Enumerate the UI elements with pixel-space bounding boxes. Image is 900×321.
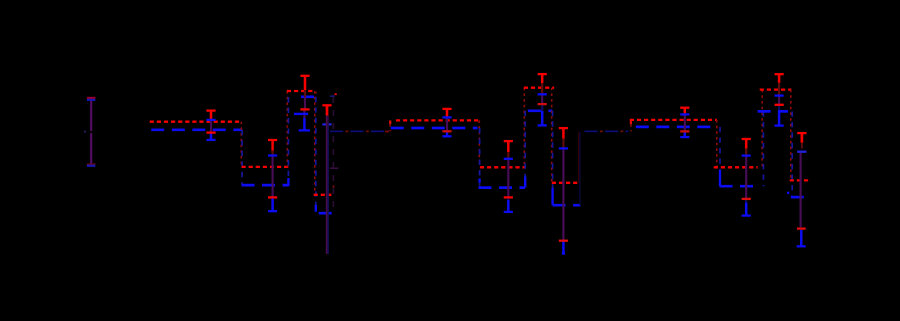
- bin B error bar red upper shaft: [271, 140, 274, 151]
- bin E2 error bar red bottom cap: [504, 196, 513, 198]
- bin A error bar red bottom cap: [206, 131, 215, 133]
- bin J error bar purple overlap shaft: [778, 96, 780, 105]
- bin C red rate line: [287, 90, 315, 92]
- bin J blue rate line: [758, 110, 789, 113]
- bin C error bar upper dim red shaft: [304, 90, 306, 97]
- bin K error bar red top cap: [797, 132, 806, 134]
- bin F error bar red bottom cap: [538, 103, 547, 105]
- bin F error bar dim blue lower shaft: [541, 104, 543, 111]
- gap segment 1 end red dash: [385, 131, 389, 133]
- bin C2 error bar dim core shaft: [326, 116, 329, 255]
- bin J red rate line: [760, 88, 792, 90]
- bin E2 error bar blue lower shaft: [507, 200, 510, 212]
- bin F red rate line: [524, 87, 554, 89]
- bin C error bar blue lower shaft: [303, 118, 306, 130]
- bin E2 error bar blue top cap: [504, 158, 513, 160]
- bin A error bar red upper shaft: [210, 111, 213, 120]
- bin B error bar red top cap: [268, 139, 277, 141]
- bin K error bar purple overlap shaft: [799, 152, 801, 228]
- bin G error bar dim red upper shaft: [562, 139, 564, 149]
- transition T11 red dotted connector: [790, 90, 792, 181]
- transition T6 blue bright stub: [524, 177, 526, 188]
- transition T10 red dotted connector: [761, 90, 763, 168]
- transition T1 red dotted connector: [240, 122, 242, 167]
- bin J error bar dim blue lower shaft: [778, 105, 780, 110]
- gap segment 1 dim red dotted segment: [330, 130, 389, 132]
- lone point purple error shaft: [90, 99, 92, 165]
- bin C2 stray dim blue dash: [330, 95, 335, 97]
- bin D blue rate line: [391, 127, 478, 130]
- bin E2 error bar blue bottom cap: [504, 211, 513, 213]
- bin K error bar red bottom cap: [797, 227, 806, 229]
- bin F error bar red top cap: [538, 73, 547, 75]
- bin I error bar blue lower shaft: [745, 203, 748, 216]
- bin D error bar red bottom cap: [442, 130, 451, 132]
- transition T2 red dotted connector: [286, 91, 288, 167]
- transition T2 blue bright stub: [287, 178, 289, 186]
- bin A error bar blue lower shaft: [210, 133, 213, 140]
- bin E2 red rate line: [480, 166, 525, 168]
- bin E2 error bar dim red upper shaft: [507, 152, 509, 159]
- bin C error bar red bottom cap: [300, 108, 309, 110]
- transition T7 blue bright stub: [551, 188, 553, 205]
- gap segment 2 dim red dotted segment: [585, 130, 629, 132]
- bin H error bar blue lower shaft: [684, 131, 687, 137]
- bin H error bar red top cap: [680, 107, 689, 109]
- bin D error bar red top cap: [442, 108, 451, 110]
- transition T4 red node dot: [333, 186, 335, 188]
- bin C error bar red upper shaft: [304, 76, 307, 90]
- bin G error bar red top cap: [559, 127, 568, 129]
- bin B error bar purple overlap shaft: [272, 156, 274, 198]
- bin J error bar blue lower shaft: [778, 110, 781, 126]
- bin H red rate line: [630, 119, 717, 121]
- bin C2 stray red dash: [335, 93, 337, 95]
- bin C error bar blue bottom cap: [299, 129, 310, 131]
- bin A blue rate line: [151, 128, 241, 131]
- bin H error bar blue top cap: [680, 113, 689, 115]
- bin H error bar blue bottom cap: [680, 136, 689, 138]
- bin I error bar blue bottom cap: [742, 214, 751, 216]
- bin A error bar red top cap: [206, 109, 215, 111]
- bin C error bar purple overlap shaft: [304, 97, 306, 110]
- bin C2 error bar dim red shaft: [326, 116, 328, 255]
- transition T8b bright red stub: [630, 120, 632, 124]
- bin I red rate line: [714, 166, 758, 168]
- bin B error bar blue top cap: [268, 154, 277, 156]
- bin D error bar blue lower shaft: [446, 131, 449, 136]
- bin B error bar dim red upper shaft: [272, 151, 274, 156]
- transition T7 red dotted connector: [551, 88, 553, 183]
- bin A red rate line: [150, 121, 242, 123]
- bin G error bar red upper shaft: [562, 128, 565, 138]
- bin H blue rate line: [636, 126, 714, 129]
- bin K error bar blue top cap: [797, 151, 806, 153]
- transition T5 red dotted connector: [478, 120, 480, 166]
- bin K error bar bright red shaft: [801, 133, 804, 143]
- transition T4 dim purple connector: [332, 97, 334, 213]
- bin K error bar dim red shaft: [801, 143, 803, 149]
- transition T4b dim red connector: [389, 124, 391, 131]
- bin G error bar blue lower shaft: [562, 241, 565, 254]
- bin B error bar blue bottom cap: [268, 210, 277, 212]
- bin C error bar red top cap: [300, 75, 309, 77]
- transition T9 red dotted connector: [716, 120, 718, 167]
- bin G red rate line: [552, 182, 579, 184]
- bin C2 red rate line: [314, 194, 332, 196]
- transition T11 blue dashed connector: [791, 111, 793, 197]
- bin F error bar dim red upper shaft: [541, 83, 543, 94]
- bin D error bar purple overlap shaft: [446, 117, 448, 131]
- transition T1 blue dashed connector: [241, 130, 243, 185]
- bin F error bar blue lower shaft: [541, 111, 544, 126]
- transition T2 blue dashed connector: [287, 97, 289, 178]
- bin C short blue bar: [294, 113, 308, 115]
- transition T8 dim blue connector: [579, 132, 581, 206]
- bin J error bar red upper shaft: [778, 74, 781, 83]
- bin C2 blue rate line: [319, 212, 335, 215]
- lone point blue top cap: [87, 99, 96, 101]
- bin I blue rate line: [720, 185, 758, 188]
- bin E2 error bar purple overlap shaft: [507, 159, 509, 198]
- transition T11 blue blob: [787, 192, 789, 195]
- bin G error bar purple overlap shaft: [562, 148, 564, 240]
- bin K red rate line: [790, 179, 811, 181]
- bin G error bar blue top cap: [559, 147, 568, 149]
- bin I error bar red bottom cap: [742, 198, 751, 200]
- transition T5 blue bright stub: [478, 179, 480, 183]
- transition T7 blue dashed connector: [552, 111, 554, 188]
- lone point blue bottom cap: [87, 165, 96, 167]
- transition T8b dim red connector: [630, 124, 632, 131]
- bin D red rate line: [396, 119, 480, 121]
- bin I error bar blue top cap: [742, 154, 751, 156]
- lone point faint blue marker: [84, 131, 86, 133]
- lone point shaft gap: [90, 131, 93, 133]
- bin A error bar blue bottom cap: [206, 139, 215, 141]
- gap segment 2 dim blue dashed segment: [585, 130, 629, 132]
- bin D error bar red upper shaft: [446, 109, 449, 118]
- bin D error bar blue top cap: [442, 116, 451, 118]
- bin F error bar purple overlap shaft: [541, 94, 543, 104]
- gap segment 1 dim blue dashed segment: [330, 130, 389, 132]
- bin K error bar blue bottom cap: [797, 245, 806, 247]
- bin I error bar dim blue lower shaft: [745, 199, 747, 203]
- bin J error bar red top cap: [775, 73, 784, 75]
- transition T3 blue bright stub: [315, 205, 317, 212]
- bin G error bar red bottom cap: [559, 240, 568, 242]
- transition T6 blue dashed connector: [524, 111, 526, 177]
- transition T9 blue bright stub: [719, 170, 721, 186]
- transition T4b bright red stub: [389, 120, 391, 124]
- bin J error bar dim red upper shaft: [778, 83, 780, 96]
- bin D error bar blue bottom cap: [442, 135, 451, 137]
- bin H error bar red upper shaft: [684, 108, 687, 115]
- bin I error bar red upper shaft: [745, 139, 748, 149]
- bin E2 blue rate line: [479, 186, 526, 189]
- bin F error bar red upper shaft: [541, 74, 544, 83]
- bin H error bar purple overlap shaft: [684, 114, 686, 131]
- bin E2 error bar red top cap: [504, 140, 513, 142]
- transition T3 red dotted connector: [314, 91, 316, 195]
- bin E2 error bar dim blue lower shaft: [507, 197, 509, 200]
- bin G error bar blue bottom blob: [562, 252, 565, 255]
- transition T5 blue dim tail: [479, 183, 481, 188]
- bin C error bar dim lower shaft: [303, 109, 305, 118]
- bin J error bar blue bottom cap: [775, 124, 784, 126]
- bin G blue rate line: [553, 204, 581, 207]
- transition T5 blue dashed connector: [479, 128, 481, 179]
- transition T6 red dotted connector: [523, 88, 525, 168]
- bin C2 small dark red mark: [315, 92, 317, 94]
- bin C2 faint purple dash: [330, 167, 338, 169]
- bin E2 error bar red upper shaft: [507, 141, 510, 152]
- bin J error bar red bottom cap: [775, 104, 784, 106]
- lone point red top cap: [87, 97, 96, 99]
- bin I error bar red top cap: [742, 138, 751, 140]
- bin K blue rate line: [791, 196, 805, 199]
- bin A error bar blue top cap: [206, 119, 215, 121]
- bin I error bar dim red upper shaft: [745, 149, 747, 156]
- bin J error bar blue top cap: [775, 94, 784, 96]
- bin F error bar blue top cap: [538, 93, 547, 95]
- bin B red rate line: [242, 166, 289, 168]
- bin B error bar blue lower shaft: [271, 197, 274, 211]
- transition T9 blue dashed connector: [719, 127, 721, 170]
- bin C2 error bar bright red shaft: [326, 105, 329, 115]
- bin B blue rate line: [242, 184, 289, 187]
- bin C blue rate line: [294, 95, 315, 98]
- lone point red bottom cap: [87, 163, 96, 165]
- transition T3 blue dashed connector: [315, 97, 317, 205]
- bin K error bar blue lower shaft: [800, 230, 803, 246]
- bin C2 error bar dim blue shaft: [327, 126, 329, 255]
- bin F blue rate line: [528, 109, 552, 112]
- bin H error bar red bottom cap: [680, 130, 689, 132]
- transition T8 dim red connector: [578, 132, 580, 183]
- bin C2 error bar bright red cap: [322, 104, 331, 106]
- bin C2 error bar blue cap: [322, 123, 331, 125]
- transition T10 blue dashed connector: [762, 111, 764, 186]
- bin I error bar purple overlap shaft: [745, 156, 747, 199]
- bin B error bar red bottom cap: [268, 196, 277, 198]
- bin F error bar blue bottom cap: [538, 124, 547, 126]
- bin A error bar purple overlap shaft: [210, 120, 212, 133]
